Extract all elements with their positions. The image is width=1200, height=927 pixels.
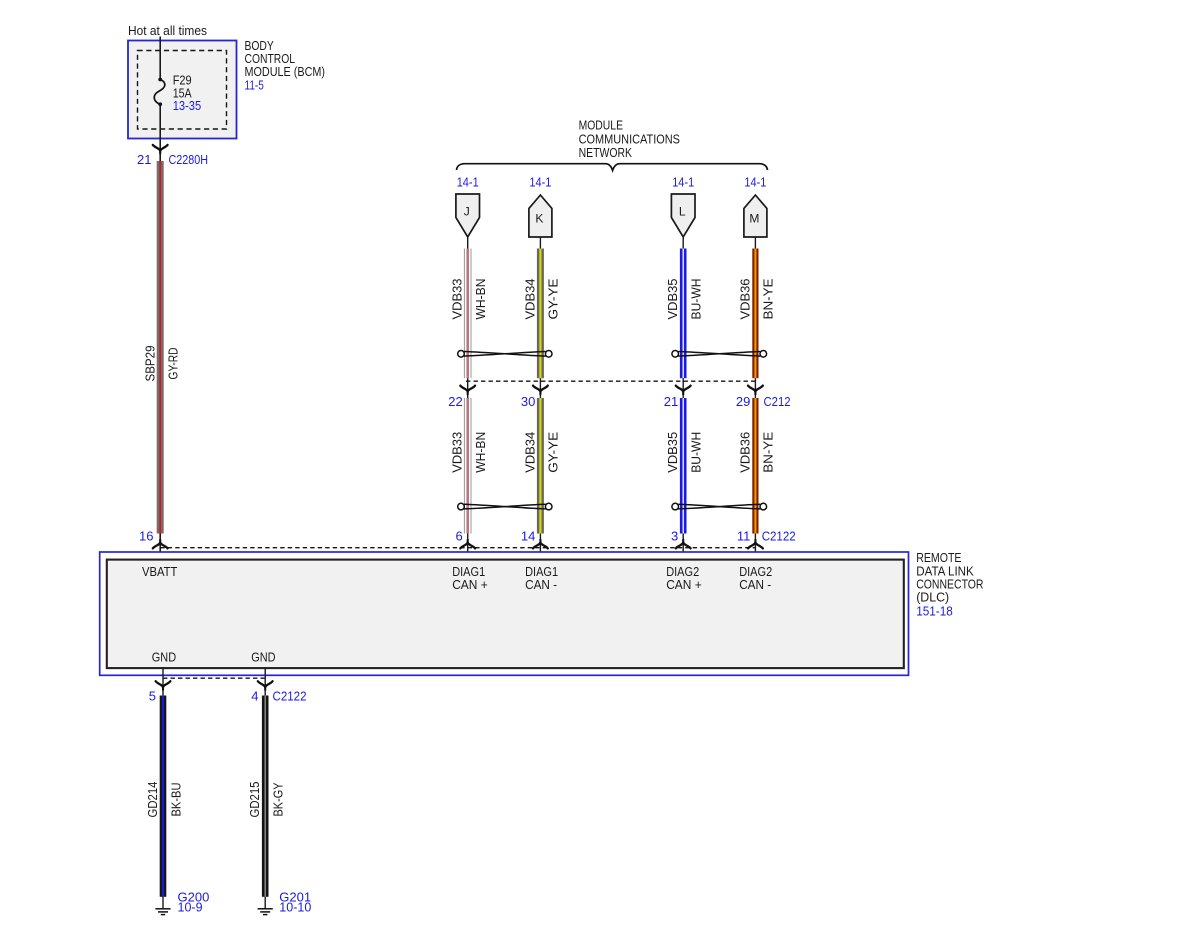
svg-text:C2122: C2122 bbox=[273, 688, 307, 703]
svg-text:VDB36: VDB36 bbox=[738, 432, 752, 473]
svg-text:BU-WH: BU-WH bbox=[690, 432, 704, 473]
svg-text:30: 30 bbox=[521, 394, 535, 409]
svg-text:10-9: 10-9 bbox=[178, 900, 203, 914]
svg-text:VDB35: VDB35 bbox=[666, 432, 680, 473]
svg-text:GY-RD: GY-RD bbox=[167, 348, 181, 380]
svg-text:10-10: 10-10 bbox=[279, 900, 311, 914]
wire GND out of DLC pin 5 bbox=[162, 668, 164, 696]
wire to ground G201 bbox=[264, 897, 266, 909]
svg-text:Hot at all times: Hot at all times bbox=[128, 23, 207, 38]
svg-text:14-1: 14-1 bbox=[744, 174, 766, 189]
svg-text:14-1: 14-1 bbox=[672, 174, 694, 189]
wire into DLC at pin 11 bbox=[754, 534, 756, 560]
svg-text:DIAG2: DIAG2 bbox=[666, 565, 699, 579]
BCM module box bbox=[128, 41, 237, 139]
ground symbol G200 bbox=[155, 909, 170, 915]
connector C2122 dashed line at DLC bbox=[160, 547, 755, 549]
svg-text:4: 4 bbox=[251, 688, 258, 703]
svg-text:MODULE: MODULE bbox=[579, 118, 624, 133]
svg-text:16: 16 bbox=[139, 529, 153, 544]
svg-text:L: L bbox=[679, 205, 686, 219]
wire VDB34 GY-YE segment 2 bbox=[537, 398, 544, 534]
svg-text:5: 5 bbox=[149, 688, 156, 703]
svg-text:BN-YE: BN-YE bbox=[762, 279, 776, 320]
svg-text:(DLC): (DLC) bbox=[916, 591, 949, 605]
svg-text:29: 29 bbox=[736, 394, 750, 409]
twisted pair VDB33/VDB34 seg2 bbox=[458, 503, 552, 510]
svg-text:NETWORK: NETWORK bbox=[579, 145, 633, 160]
svg-text:VDB34: VDB34 bbox=[523, 278, 537, 319]
svg-text:BU-WH: BU-WH bbox=[690, 279, 704, 320]
svg-text:K: K bbox=[535, 212, 543, 226]
wire VDB34 GY-YE segment 1 bbox=[537, 249, 544, 379]
svg-text:14-1: 14-1 bbox=[529, 174, 551, 189]
connector arrow C2122 pin 5 bbox=[156, 681, 171, 690]
twisted pair VDB33/VDB34 seg1 bbox=[458, 351, 552, 358]
svg-text:VDB33: VDB33 bbox=[451, 432, 465, 473]
wire: pin L lead bbox=[682, 237, 684, 249]
svg-text:GND: GND bbox=[152, 650, 176, 664]
connector arrow C212 pin 21 bbox=[676, 386, 691, 395]
svg-text:DIAG1: DIAG1 bbox=[452, 565, 485, 579]
svg-text:GND: GND bbox=[251, 650, 275, 664]
twisted pair VDB35/VDB36 seg1 bbox=[672, 351, 767, 358]
svg-text:21: 21 bbox=[664, 394, 678, 409]
svg-text:WH-BN: WH-BN bbox=[474, 279, 488, 320]
wire into DLC at pin 3 bbox=[682, 534, 684, 560]
svg-text:BK-GY: BK-GY bbox=[272, 782, 286, 817]
fuse F29 element bbox=[154, 78, 165, 107]
svg-text:CAN -: CAN - bbox=[739, 578, 771, 592]
wire through C212 at pin 22 bbox=[467, 378, 469, 398]
wire: pin M lead bbox=[754, 237, 756, 249]
svg-text:DATA LINK: DATA LINK bbox=[916, 564, 974, 578]
svg-text:GY-YE: GY-YE bbox=[547, 432, 561, 473]
wire VDB35 BU-WH segment 2 bbox=[680, 398, 687, 534]
svg-text:J: J bbox=[464, 205, 470, 219]
connector arrow C2122 pin 6 bbox=[460, 539, 475, 548]
wire: hot feed into fuse bbox=[159, 37, 161, 80]
wire VDB33 WH-BN segment 2 bbox=[464, 398, 472, 534]
svg-text:GY-YE: GY-YE bbox=[547, 279, 561, 320]
connector arrow C212 pin 30 bbox=[533, 386, 548, 395]
svg-text:C212: C212 bbox=[764, 394, 791, 409]
network pin L bbox=[671, 194, 695, 237]
svg-text:GD214: GD214 bbox=[146, 781, 160, 817]
network pin J bbox=[456, 194, 480, 237]
svg-text:DIAG2: DIAG2 bbox=[739, 565, 772, 579]
wire: fuse output to connector C2280H bbox=[159, 104, 161, 161]
connector arrow C2122 pin 14 bbox=[533, 539, 548, 548]
svg-text:BK-BU: BK-BU bbox=[169, 783, 183, 817]
svg-text:VDB33: VDB33 bbox=[451, 278, 465, 319]
connector arrow C212 pin 22 bbox=[460, 386, 475, 395]
svg-text:C2280H: C2280H bbox=[169, 152, 209, 167]
svg-text:VBATT: VBATT bbox=[142, 565, 178, 579]
wire VDB36 BN-YE segment 2 bbox=[752, 398, 758, 534]
twisted pair VDB35/VDB36 seg2 bbox=[672, 503, 767, 510]
svg-text:M: M bbox=[749, 212, 759, 226]
svg-text:13-35: 13-35 bbox=[173, 98, 202, 113]
wire GND out of DLC pin 4 bbox=[264, 668, 266, 696]
connector arrow C2280H pin 21 bbox=[153, 145, 168, 154]
wire VDB35 BU-WH segment 1 bbox=[680, 249, 687, 379]
svg-text:CAN -: CAN - bbox=[525, 578, 557, 592]
wire through C212 at pin 21 bbox=[682, 378, 684, 398]
svg-text:CONNECTOR: CONNECTOR bbox=[916, 577, 983, 591]
svg-text:CAN +: CAN + bbox=[666, 578, 702, 592]
connector C212 dashed line bbox=[466, 380, 757, 382]
svg-text:GD215: GD215 bbox=[248, 781, 262, 817]
svg-text:21: 21 bbox=[137, 152, 151, 167]
connector arrow C2122 pin 3 bbox=[676, 539, 691, 548]
connector arrow C2122 pin 11 bbox=[748, 539, 763, 548]
connector arrow C212 pin 29 bbox=[748, 386, 763, 395]
svg-text:SBP29: SBP29 bbox=[143, 345, 157, 381]
svg-text:151-18: 151-18 bbox=[916, 604, 953, 618]
wire into DLC at pin 6 bbox=[467, 534, 469, 560]
brace over network branches bbox=[457, 164, 768, 171]
svg-text:VDB34: VDB34 bbox=[523, 432, 537, 473]
svg-text:VDB36: VDB36 bbox=[738, 278, 752, 319]
svg-text:CAN +: CAN + bbox=[452, 578, 488, 592]
svg-text:11: 11 bbox=[737, 529, 751, 544]
wire into DLC at pin 14 bbox=[539, 534, 541, 560]
wire through C212 at pin 29 bbox=[754, 378, 756, 398]
BCM internal dashed boundary bbox=[138, 51, 227, 130]
svg-text:C2122: C2122 bbox=[762, 529, 796, 544]
wire SBP29 GY-RD (battery feed) bbox=[157, 161, 164, 534]
network pin K bbox=[529, 195, 552, 237]
network pin M bbox=[744, 195, 767, 237]
connector arrow C2122 pin 4 bbox=[258, 681, 273, 690]
svg-text:14: 14 bbox=[521, 529, 535, 544]
svg-text:3: 3 bbox=[671, 529, 678, 544]
svg-text:14-1: 14-1 bbox=[457, 174, 479, 189]
svg-text:22: 22 bbox=[448, 394, 462, 409]
wire: pin J lead bbox=[467, 237, 469, 249]
wire VDB36 BN-YE segment 1 bbox=[752, 249, 758, 379]
svg-text:BN-YE: BN-YE bbox=[762, 432, 776, 473]
wire to ground G200 bbox=[162, 897, 164, 909]
connector arrow into DLC (VBATT) bbox=[153, 539, 168, 548]
svg-text:DIAG1: DIAG1 bbox=[525, 565, 558, 579]
wire: pin K lead bbox=[539, 237, 541, 249]
wire GD215 BK-GY bbox=[262, 696, 269, 897]
wire GD214 BK-BU bbox=[160, 696, 167, 897]
svg-text:6: 6 bbox=[455, 529, 462, 544]
svg-text:VDB35: VDB35 bbox=[666, 278, 680, 319]
ground symbol G201 bbox=[258, 909, 273, 915]
wire through C212 at pin 30 bbox=[539, 378, 541, 398]
connector C2122 dashed line below DLC bbox=[163, 677, 265, 679]
svg-text:WH-BN: WH-BN bbox=[474, 432, 488, 473]
svg-text:REMOTE: REMOTE bbox=[916, 551, 961, 565]
svg-text:11-5: 11-5 bbox=[245, 77, 264, 92]
wire VDB33 WH-BN segment 1 bbox=[464, 249, 472, 379]
REMOTE DATA LINK CONNECTOR (DLC) box bbox=[100, 552, 909, 675]
wire: SBP29 into DLC VBATT bbox=[159, 534, 161, 560]
